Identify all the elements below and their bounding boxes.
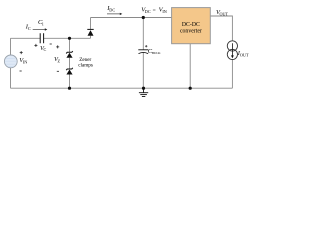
zener Z1: [66, 51, 73, 58]
label +VC- under C1: [34, 44, 37, 47]
wire: C_BULK branch lower: [142, 53, 144, 88]
wire: Vin branch upper segment: [10, 38, 12, 55]
svg-text:Z: Z: [58, 59, 61, 64]
wire: C_BULK branch upper: [142, 18, 144, 50]
svg-text:OUT: OUT: [220, 11, 229, 16]
wire: top-left rail from C1 right plate to diode corner: [44, 37, 91, 39]
current source IOUT (two overlapping circles): [227, 41, 237, 60]
svg-text:IN: IN: [162, 9, 166, 14]
svg-text:C: C: [44, 47, 47, 52]
wire: Vin branch lower segment: [10, 68, 12, 89]
DC-DC converter box U1: [172, 8, 211, 44]
wire: below current source down to bottom rail: [231, 60, 233, 89]
node: junction dot at zener tap on top rail: [68, 37, 71, 40]
svg-text:BULK: BULK: [152, 51, 161, 55]
svg-text:DC: DC: [109, 8, 115, 13]
ground symbol: [139, 88, 148, 96]
node: junction dot top rail / C_BULK: [142, 16, 145, 19]
current arrow IC: [33, 28, 48, 30]
svg-text:clamps: clamps: [78, 63, 93, 69]
svg-text:converter: converter: [180, 29, 202, 35]
wire: diode branch vertical (rail corner up through diode to top rail): [90, 18, 92, 39]
svg-text:DC: DC: [145, 9, 151, 14]
capacitor C_BULK (polarized): [138, 50, 148, 54]
label VZ: [56, 45, 59, 48]
svg-text:=: =: [153, 8, 156, 14]
capacitor C1 plates: [40, 33, 43, 43]
svg-text:C: C: [28, 26, 31, 31]
diode D1 (series blocking diode): [87, 29, 93, 35]
svg-text:DC-DC: DC-DC: [182, 22, 200, 28]
svg-text:1: 1: [42, 21, 44, 26]
svg-text:OUT: OUT: [240, 53, 249, 58]
voltage source VIN: [4, 55, 17, 68]
current arrow IDC: [107, 13, 122, 15]
node: junction dot DC-DC ground on bottom rail: [189, 87, 192, 90]
node: junction dot ground tap on bottom rail: [142, 87, 145, 90]
wire: Vout from box to right corner and down: [210, 16, 232, 41]
wire: zener branch segments: [69, 38, 71, 88]
node: junction dot zener branch on bottom rail: [68, 87, 71, 90]
svg-text:IN: IN: [23, 59, 27, 64]
label VIN source: [20, 51, 23, 54]
zener Z2: [66, 68, 73, 75]
wire: bottom rail: [11, 87, 233, 89]
wire: DC-DC ground stub: [189, 44, 191, 88]
wire: top-left rail from Vin corner to C1 left plate: [11, 37, 41, 39]
wire: upper rail y=17.5 to DC-DC box: [91, 17, 172, 19]
